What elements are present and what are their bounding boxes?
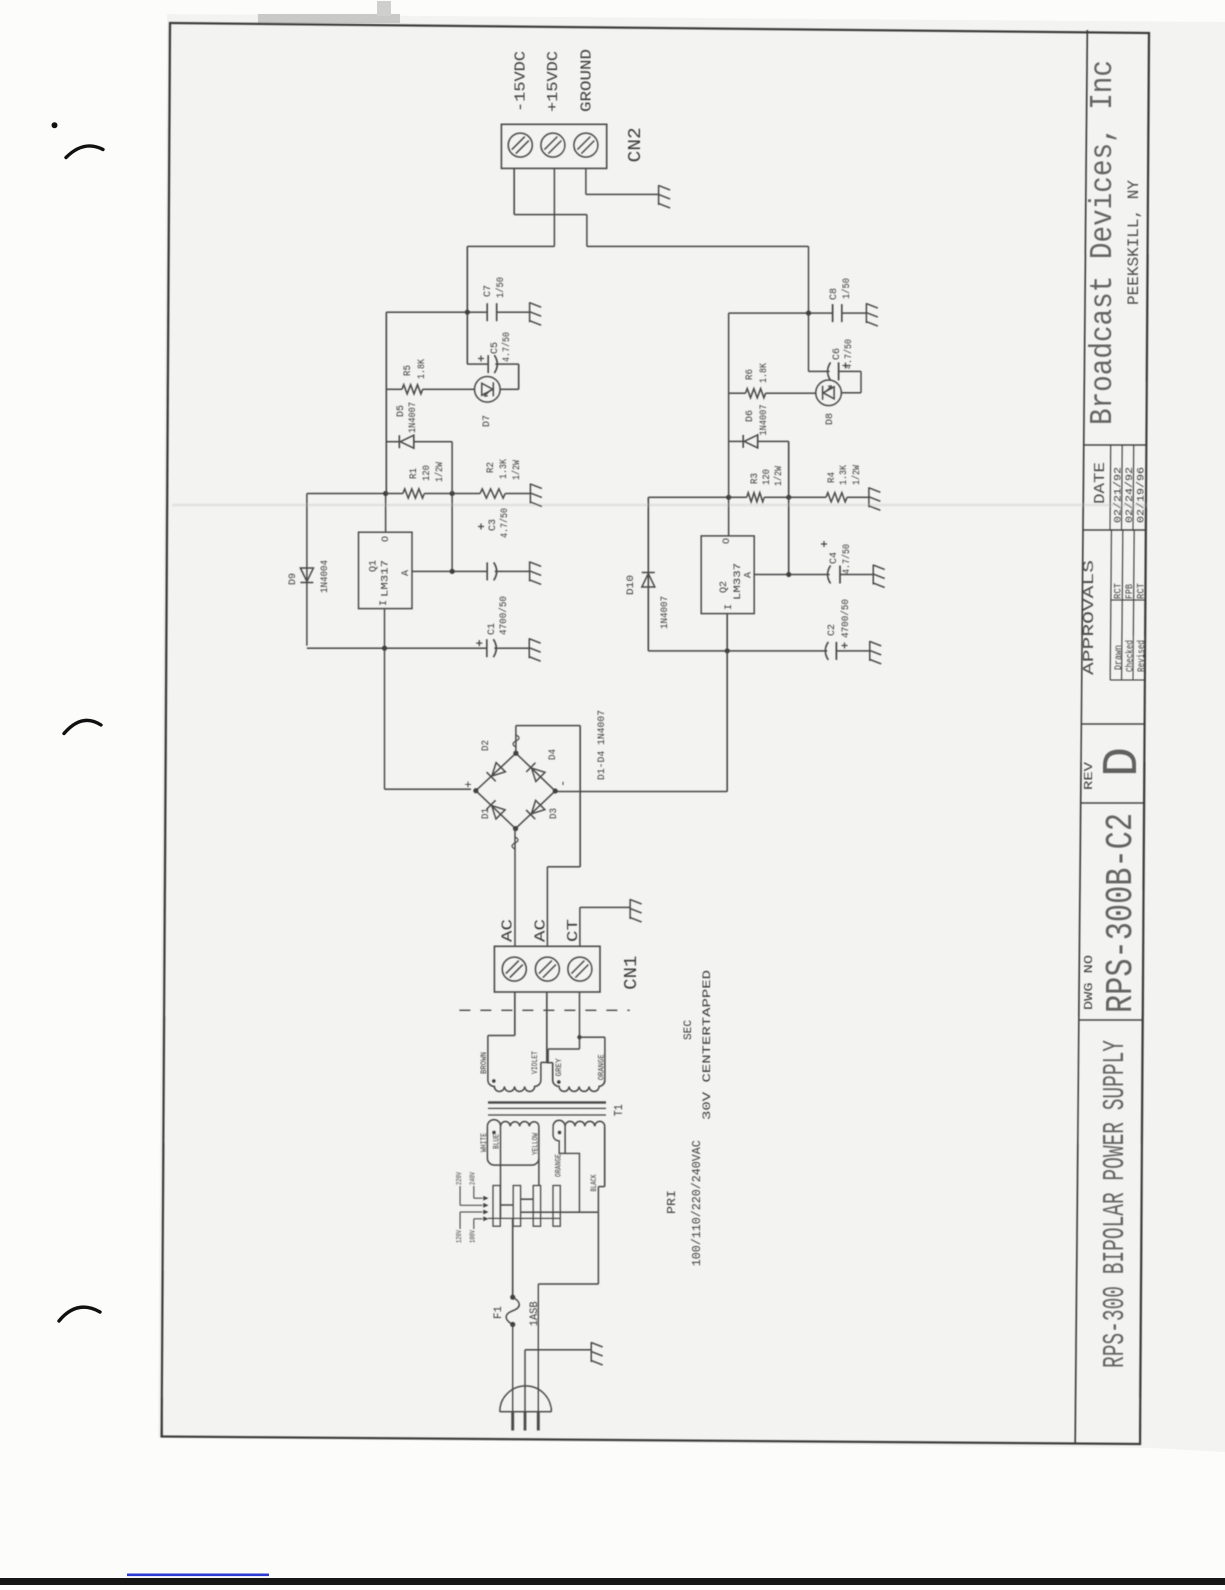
diode D10 loop wire bbox=[647, 497, 649, 651]
svg-text:R1: R1 bbox=[409, 468, 420, 479]
plug prong 1 bbox=[511, 1412, 514, 1431]
ground at C2 bbox=[870, 641, 882, 664]
capacitor C3 bbox=[486, 562, 488, 580]
svg-text:PRI: PRI bbox=[665, 1190, 679, 1214]
svg-text:C6: C6 bbox=[832, 348, 843, 360]
svg-text:02/21/92: 02/21/92 bbox=[1113, 467, 1125, 523]
node -input junction bbox=[725, 648, 730, 653]
svg-text:RPS-300B-C2: RPS-300B-C2 bbox=[1100, 813, 1143, 1013]
scanner black bottom edge bbox=[0, 1578, 1225, 1585]
svg-text:+15VDC: +15VDC bbox=[545, 51, 562, 112]
svg-text:REV: REV bbox=[1082, 761, 1096, 790]
svg-text:C1: C1 bbox=[487, 623, 498, 635]
CN1 screw AC2 bbox=[535, 957, 559, 981]
svg-text:120V: 120V bbox=[456, 1229, 464, 1243]
connector CN1 bbox=[494, 946, 600, 992]
approvals table bbox=[1110, 679, 1145, 681]
wire plug ground bbox=[525, 1349, 591, 1351]
svg-text:Q2: Q2 bbox=[718, 581, 730, 593]
svg-text:I: I bbox=[379, 600, 390, 606]
bridge + node bbox=[473, 788, 478, 793]
ground at C7 bbox=[530, 302, 542, 325]
svg-text:LM337: LM337 bbox=[732, 563, 744, 600]
T1 secondary winding S2 bbox=[553, 1037, 605, 1091]
svg-text:4700/50: 4700/50 bbox=[498, 596, 510, 635]
CN1 screw AC bbox=[502, 957, 526, 981]
T1 primary winding P1 bbox=[487, 1126, 539, 1165]
CN2 screw GROUND bbox=[574, 133, 598, 157]
svg-text:1/2W: 1/2W bbox=[434, 462, 446, 482]
svg-text:D2: D2 bbox=[481, 740, 492, 751]
svg-text:1N4007: 1N4007 bbox=[660, 596, 671, 629]
diode D4 bbox=[526, 763, 545, 782]
svg-text:D1-D4 1N4007: D1-D4 1N4007 bbox=[596, 710, 608, 780]
title strip inner line bbox=[1075, 30, 1087, 1443]
wire bridge- to rail bbox=[555, 791, 727, 793]
diode D9 loop wire bbox=[306, 494, 308, 646]
svg-text:Q1: Q1 bbox=[368, 560, 380, 572]
svg-text:SEC: SEC bbox=[683, 1020, 695, 1040]
svg-text:LM317: LM317 bbox=[380, 560, 392, 597]
svg-text:BROWN: BROWN bbox=[480, 1052, 489, 1074]
title divider bbox=[1084, 444, 1147, 446]
bridge rectifier D1-D4 bbox=[476, 753, 555, 828]
svg-text:C3: C3 bbox=[488, 519, 499, 531]
svg-text:4.7/50: 4.7/50 bbox=[499, 508, 511, 538]
svg-text:D1: D1 bbox=[481, 808, 492, 819]
wire ORANGE pri lead bbox=[553, 1126, 579, 1212]
capacitor C8 branch bbox=[729, 312, 833, 314]
svg-text:R2: R2 bbox=[486, 462, 497, 473]
CN2 screw +15VDC bbox=[541, 133, 565, 157]
ground at R2 bbox=[530, 484, 542, 507]
bridge AC right node bbox=[513, 751, 518, 756]
svg-text:100V: 100V bbox=[470, 1229, 478, 1243]
svg-text:CN2: CN2 bbox=[626, 127, 646, 162]
CN1 screw CT bbox=[568, 957, 592, 981]
capacitor C5 bbox=[467, 363, 488, 365]
wire ORANGE lead bbox=[580, 1036, 605, 1038]
svg-text:1/50: 1/50 bbox=[495, 277, 507, 298]
title divider bbox=[1081, 802, 1144, 804]
wire AC return through bars bbox=[521, 1211, 599, 1213]
plug prong 2 bbox=[524, 1412, 527, 1431]
resistor R1 bbox=[386, 493, 403, 495]
wire BLACK to AC return bbox=[597, 1187, 599, 1213]
svg-text:RCT: RCT bbox=[1114, 583, 1125, 599]
svg-text:ORANGE: ORANGE bbox=[598, 1054, 607, 1080]
voltage selector pin bars bbox=[493, 1186, 500, 1227]
node +15 output bbox=[383, 491, 388, 496]
capacitor C6 bbox=[809, 370, 830, 372]
svg-text:4700/50: 4700/50 bbox=[840, 599, 852, 638]
selector arrows bbox=[459, 1186, 461, 1205]
svg-text:220V: 220V bbox=[456, 1171, 464, 1185]
svg-text:WHITE: WHITE bbox=[480, 1133, 489, 1152]
capacitor C2 bbox=[825, 642, 828, 660]
node CT-orange bbox=[577, 1035, 581, 1039]
wire adjust line bbox=[412, 570, 487, 572]
pen mark 2 bbox=[64, 720, 101, 733]
T1 secondary winding S1 bbox=[488, 1036, 541, 1092]
svg-text:D5: D5 bbox=[396, 405, 407, 417]
title divider bbox=[1079, 1019, 1143, 1021]
svg-text:1.3K: 1.3K bbox=[499, 459, 510, 479]
svg-text:4.7/50: 4.7/50 bbox=[501, 332, 513, 362]
bridge - node bbox=[553, 788, 558, 793]
wire U2 output bbox=[728, 497, 730, 536]
LED D7 bbox=[475, 377, 501, 403]
svg-text:CN1: CN1 bbox=[622, 956, 642, 990]
fuse F1 bbox=[512, 1218, 514, 1297]
AC plug bbox=[500, 1411, 552, 1413]
resistor R2 bbox=[480, 489, 505, 498]
wire bridge+ to rail bbox=[385, 788, 472, 790]
diode D10 bbox=[642, 573, 655, 588]
ground at CN2 bbox=[659, 185, 671, 208]
svg-text:A: A bbox=[744, 572, 755, 578]
plug prong 3 bbox=[537, 1412, 540, 1431]
svg-text:APPROVALS: APPROVALS bbox=[1081, 560, 1098, 675]
svg-text:120: 120 bbox=[422, 465, 433, 481]
wire plug line bbox=[512, 1325, 514, 1431]
svg-text:ORANGE: ORANGE bbox=[555, 1154, 564, 1177]
svg-text:1N4007: 1N4007 bbox=[759, 405, 770, 436]
node R1-R2 bbox=[450, 491, 455, 496]
svg-text:O: O bbox=[381, 536, 392, 542]
svg-text:Revised: Revised bbox=[1136, 640, 1148, 672]
node -15 output bbox=[726, 495, 731, 500]
wire plug ground pin bbox=[524, 1350, 526, 1431]
svg-text:1.8K: 1.8K bbox=[417, 359, 428, 379]
resistor R5 branch bbox=[386, 388, 402, 390]
wire BROWN lead bbox=[488, 1035, 515, 1037]
svg-text:30V CENTERTAPPED: 30V CENTERTAPPED bbox=[702, 969, 714, 1120]
svg-text:D7: D7 bbox=[482, 415, 493, 427]
svg-text:RPS-300 BIPOLAR POWER SUPPLY: RPS-300 BIPOLAR POWER SUPPLY bbox=[1098, 1040, 1133, 1368]
svg-text:A: A bbox=[401, 570, 412, 576]
svg-text:1ASB: 1ASB bbox=[529, 1301, 541, 1326]
svg-text:RCT: RCT bbox=[1137, 583, 1148, 599]
diode D2 bbox=[487, 763, 506, 782]
wire -15V feed to CN2 bbox=[513, 168, 515, 214]
wire +DC input rail bbox=[307, 647, 487, 649]
node +input junction bbox=[382, 646, 387, 651]
CN2 screw -15VDC bbox=[508, 133, 532, 157]
selector interconnects bbox=[500, 1204, 513, 1206]
svg-text:R4: R4 bbox=[827, 472, 838, 483]
svg-text:GREY: GREY bbox=[555, 1058, 564, 1076]
svg-text:I: I bbox=[724, 604, 735, 610]
svg-text:DWG NO: DWG NO bbox=[1082, 955, 1096, 1010]
sheet border frame bbox=[162, 23, 1149, 1444]
P2 inner line bbox=[564, 1126, 566, 1153]
svg-text:-: - bbox=[556, 780, 570, 787]
date table bbox=[1109, 445, 1112, 530]
diode D5 branch bbox=[386, 441, 399, 443]
wire CN1 AC1 to bridge bbox=[514, 829, 516, 947]
svg-text:D4: D4 bbox=[548, 749, 559, 760]
ground at plug bbox=[591, 1342, 603, 1365]
phase dot P1 bbox=[492, 1131, 496, 1135]
wire plug neutral bbox=[537, 1284, 539, 1431]
svg-text:1N4004: 1N4004 bbox=[320, 560, 331, 593]
svg-text:1.3K: 1.3K bbox=[839, 465, 850, 485]
svg-text:240V: 240V bbox=[470, 1171, 478, 1185]
diode D5 bbox=[399, 435, 414, 448]
svg-text:100/110/220/240VAC: 100/110/220/240VAC bbox=[690, 1140, 704, 1266]
svg-text:GROUND: GROUND bbox=[578, 49, 595, 112]
selector spine line bbox=[488, 1217, 560, 1219]
svg-text:FPB: FPB bbox=[1125, 584, 1136, 599]
pen mark 3 bbox=[59, 1307, 100, 1321]
wire BLACK lead bbox=[598, 1186, 604, 1188]
svg-text:1/50: 1/50 bbox=[841, 278, 853, 299]
svg-text:C8: C8 bbox=[829, 288, 840, 300]
svg-text:T1: T1 bbox=[612, 1104, 626, 1116]
wire +15V feed to CN2 bbox=[553, 168, 555, 246]
resistor R6 branch bbox=[729, 392, 746, 394]
svg-text:R5: R5 bbox=[403, 365, 414, 376]
title divider bbox=[1083, 529, 1146, 531]
wire +15V node bbox=[385, 312, 387, 493]
svg-text:D10: D10 bbox=[626, 575, 637, 595]
svg-text:C5: C5 bbox=[490, 342, 501, 354]
svg-text:PEEKSKILL, NY: PEEKSKILL, NY bbox=[1125, 180, 1143, 305]
bridge AC left node bbox=[513, 826, 518, 831]
dashed chassis line bbox=[459, 1009, 629, 1011]
svg-text:1/2W: 1/2W bbox=[851, 465, 863, 485]
ground at C3 bbox=[530, 561, 542, 584]
svg-text:1.8K: 1.8K bbox=[759, 363, 770, 383]
wire U2 input bbox=[726, 614, 728, 651]
wire VIOLET lead to CT bbox=[541, 1061, 548, 1063]
svg-text:120: 120 bbox=[762, 469, 773, 485]
svg-text:C7: C7 bbox=[483, 285, 494, 297]
P2 bottom edge bbox=[604, 1126, 606, 1186]
svg-text:O: O bbox=[722, 538, 733, 544]
wire CN1 CT to ground bbox=[579, 907, 581, 946]
wire CT terminal bbox=[579, 992, 581, 1049]
capacitor C1 bbox=[486, 639, 488, 657]
svg-text:1/2W: 1/2W bbox=[773, 466, 785, 486]
phase dot P2 bbox=[558, 1131, 562, 1135]
diode D3 bbox=[526, 800, 545, 819]
bridge AC squiggle right bbox=[513, 735, 519, 747]
svg-text:Drawn: Drawn bbox=[1114, 645, 1125, 670]
resistor R3 bbox=[729, 496, 747, 498]
svg-text:1/2W: 1/2W bbox=[511, 460, 523, 480]
svg-text:1N4007: 1N4007 bbox=[408, 402, 419, 433]
svg-text:4.7/50: 4.7/50 bbox=[843, 339, 855, 369]
T1 primary winding P2 bbox=[553, 1120, 565, 1126]
wire plug to selector bbox=[538, 1283, 598, 1285]
svg-text:02/19/96: 02/19/96 bbox=[1136, 467, 1148, 523]
wire BLUE tap bbox=[500, 1126, 502, 1218]
LED D8 bbox=[816, 380, 842, 406]
svg-text:YELLOW: YELLOW bbox=[532, 1133, 541, 1155]
svg-text:C2: C2 bbox=[827, 624, 838, 636]
svg-text:D3: D3 bbox=[549, 808, 560, 819]
svg-text:Broadcast Devices, Inc: Broadcast Devices, Inc bbox=[1086, 60, 1121, 425]
svg-text:D9: D9 bbox=[288, 573, 299, 585]
diode D9 bbox=[300, 568, 313, 583]
wire GREY lead bbox=[547, 1062, 553, 1064]
paper top edge smudge bbox=[258, 14, 400, 23]
wire YELLOW lead bbox=[538, 1158, 540, 1186]
connector CN2 bbox=[501, 124, 606, 168]
node R3-R4 bbox=[786, 495, 791, 500]
transformer T1 core bbox=[488, 1114, 606, 1116]
svg-text:F1: F1 bbox=[493, 1306, 505, 1319]
wire adjust line U2 bbox=[754, 574, 829, 576]
svg-text:D8: D8 bbox=[825, 413, 836, 425]
wire -15V node bbox=[728, 313, 730, 497]
svg-text:VIOLET: VIOLET bbox=[531, 1051, 540, 1074]
ground at R4 bbox=[869, 487, 881, 510]
svg-text:C4: C4 bbox=[829, 552, 840, 564]
svg-text:BLUE: BLUE bbox=[493, 1134, 502, 1149]
title divider bbox=[1081, 723, 1144, 725]
blue mark bottom left bbox=[127, 1574, 269, 1577]
wire U1 input bbox=[384, 609, 386, 790]
ground at C4 bbox=[873, 565, 885, 588]
ground at CT bbox=[630, 899, 642, 922]
regulator U1 LM317 bbox=[359, 532, 413, 608]
svg-text:R6: R6 bbox=[745, 369, 756, 380]
capacitor C4 bbox=[828, 566, 831, 584]
diode D6 bbox=[743, 435, 758, 448]
ground at C1 bbox=[529, 638, 541, 661]
regulator U2 LM337 bbox=[701, 536, 754, 614]
svg-text:DATE: DATE bbox=[1092, 462, 1109, 504]
diode D1 bbox=[486, 800, 505, 819]
phase dot S2 bbox=[557, 1080, 561, 1084]
diode D6 branch bbox=[729, 440, 744, 442]
bridge AC squiggle left bbox=[512, 837, 518, 849]
svg-text:D6: D6 bbox=[745, 410, 756, 422]
svg-text:+: + bbox=[462, 781, 476, 788]
svg-text:02/24/92: 02/24/92 bbox=[1124, 467, 1136, 523]
scanned paper sheet bbox=[158, 14, 1225, 1452]
node -15 feed C8 bbox=[806, 311, 811, 316]
svg-text:AC: AC bbox=[500, 919, 517, 942]
resistor R4 bbox=[826, 493, 847, 502]
svg-text:D: D bbox=[1095, 747, 1152, 777]
ground at C8 bbox=[866, 303, 878, 326]
svg-text:Checked: Checked bbox=[1125, 640, 1137, 672]
svg-text:R3: R3 bbox=[750, 473, 761, 484]
pen mark 1 bbox=[52, 122, 58, 128]
svg-text:-15VDC: -15VDC bbox=[513, 51, 530, 112]
phase dot S1 bbox=[492, 1079, 496, 1083]
wire CN2 ground bbox=[585, 168, 587, 194]
capacitor C7 branch bbox=[386, 311, 487, 313]
wire U1 output bbox=[385, 494, 387, 533]
node +15 feed bbox=[465, 310, 470, 315]
wire -DC input rail bbox=[648, 650, 827, 652]
wire CN1 AC2 to bridge (detour) bbox=[546, 867, 548, 947]
svg-text:4.7/50: 4.7/50 bbox=[841, 544, 853, 574]
